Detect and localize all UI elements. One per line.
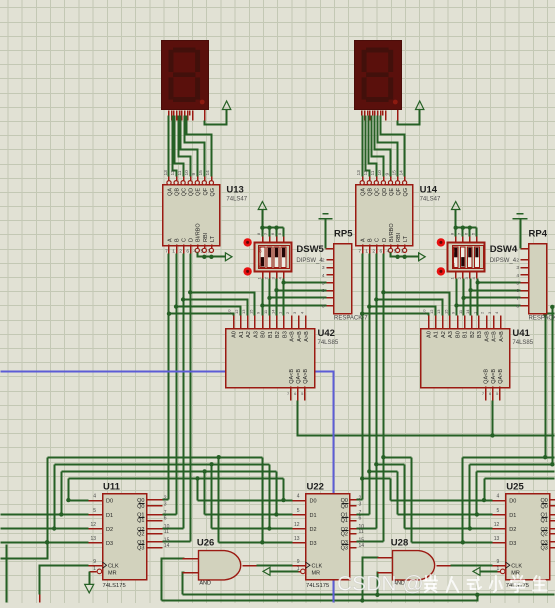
svg-text:7: 7 — [516, 296, 519, 302]
svg-text:1: 1 — [297, 566, 300, 572]
svg-text:D0: D0 — [310, 499, 317, 505]
svg-text:13: 13 — [294, 536, 300, 542]
svg-text:A=B: A=B — [492, 331, 498, 342]
svg-text:D3: D3 — [509, 541, 516, 547]
svg-text:U11: U11 — [103, 482, 121, 493]
svg-text:A: A — [167, 238, 173, 242]
svg-text:QB: QB — [175, 188, 181, 196]
svg-text:B2: B2 — [470, 331, 476, 338]
svg-text:Q3: Q3 — [540, 546, 547, 552]
svg-text:B2: B2 — [275, 331, 281, 338]
svg-text:3: 3 — [208, 249, 211, 255]
svg-text:14: 14 — [398, 170, 404, 176]
svg-text:U28: U28 — [391, 537, 408, 548]
svg-text:QC: QC — [182, 188, 188, 196]
svg-text:QE: QE — [196, 188, 202, 196]
svg-text:LT: LT — [210, 235, 216, 242]
svg-text:1: 1 — [93, 566, 96, 572]
svg-text:A2: A2 — [246, 331, 252, 338]
svg-text:A0: A0 — [426, 331, 432, 338]
svg-text:A0: A0 — [232, 331, 238, 338]
svg-text:5: 5 — [516, 281, 519, 287]
svg-text:6: 6 — [516, 288, 519, 294]
svg-text:A<B: A<B — [485, 331, 491, 342]
svg-text:11: 11 — [359, 529, 364, 535]
svg-text:14: 14 — [359, 543, 365, 549]
svg-text:A2: A2 — [441, 331, 447, 338]
svg-text:13: 13 — [163, 170, 169, 176]
svg-text:6: 6 — [380, 249, 383, 255]
svg-text:14: 14 — [164, 543, 170, 549]
svg-text:12: 12 — [90, 522, 96, 528]
svg-text:DSW4: DSW4 — [490, 244, 518, 255]
svg-text:Q0: Q0 — [137, 504, 144, 510]
svg-text:OFF: OFF — [452, 246, 456, 252]
svg-text:13: 13 — [241, 309, 246, 314]
svg-text:13: 13 — [436, 309, 441, 314]
svg-text:5: 5 — [322, 281, 325, 287]
svg-text:U25: U25 — [506, 482, 524, 493]
svg-text:6: 6 — [186, 249, 189, 255]
svg-text:RP5: RP5 — [334, 229, 353, 240]
svg-text:B1: B1 — [268, 331, 274, 338]
svg-text:D3: D3 — [310, 541, 317, 547]
svg-text:9: 9 — [497, 559, 500, 565]
svg-text:A3: A3 — [448, 331, 454, 338]
svg-text:4: 4 — [193, 249, 196, 255]
svg-text:5: 5 — [93, 508, 96, 514]
svg-text:5: 5 — [394, 249, 397, 255]
svg-text:CLK: CLK — [108, 564, 119, 570]
svg-text:B3: B3 — [477, 331, 483, 338]
svg-text:Q2: Q2 — [540, 532, 547, 538]
svg-text:2: 2 — [372, 249, 375, 255]
svg-text:11: 11 — [177, 170, 183, 175]
svg-text:D3: D3 — [106, 541, 113, 547]
svg-text:5: 5 — [297, 508, 300, 514]
svg-text:4: 4 — [322, 273, 325, 279]
svg-text:Q1: Q1 — [540, 518, 547, 524]
svg-text:5: 5 — [497, 508, 500, 514]
svg-text:13: 13 — [90, 536, 96, 542]
svg-text:14: 14 — [270, 309, 275, 314]
svg-text:U41: U41 — [512, 328, 530, 339]
svg-text:MR: MR — [108, 571, 117, 577]
svg-text:A>B: A>B — [304, 331, 310, 342]
svg-text:74LS47: 74LS47 — [226, 197, 247, 203]
svg-text:QD: QD — [189, 188, 195, 196]
svg-text:14: 14 — [205, 170, 211, 176]
svg-text:OFF: OFF — [259, 246, 263, 252]
svg-text:4: 4 — [93, 494, 96, 500]
svg-text:QG: QG — [210, 188, 216, 197]
svg-text:QD: QD — [382, 188, 388, 196]
svg-text:15: 15 — [391, 170, 397, 176]
svg-text:A=B: A=B — [297, 331, 303, 342]
svg-text:B3: B3 — [282, 331, 288, 338]
svg-text:12: 12 — [234, 309, 239, 314]
svg-text:B: B — [175, 238, 181, 242]
svg-text:D2: D2 — [310, 527, 317, 533]
svg-text:D2: D2 — [106, 527, 113, 533]
svg-text:12: 12 — [429, 309, 434, 314]
svg-text:12: 12 — [170, 170, 176, 176]
svg-text:Q1: Q1 — [137, 518, 144, 524]
svg-text:5: 5 — [201, 249, 204, 255]
svg-text:U13: U13 — [226, 185, 243, 196]
svg-text:B0: B0 — [455, 331, 461, 338]
svg-text:Q3: Q3 — [137, 546, 144, 552]
svg-text:74LS175: 74LS175 — [306, 583, 329, 589]
svg-text:QA<B: QA<B — [484, 369, 490, 384]
svg-text:U14: U14 — [420, 185, 438, 196]
svg-text:3: 3 — [322, 265, 325, 271]
svg-text:QG: QG — [403, 188, 409, 197]
svg-text:Q0: Q0 — [540, 504, 547, 510]
svg-text:1: 1 — [172, 249, 175, 255]
svg-text:2: 2 — [322, 258, 325, 264]
svg-text:3: 3 — [401, 249, 404, 255]
svg-text:QA: QA — [167, 188, 173, 196]
svg-text:QA>B: QA>B — [303, 369, 309, 384]
svg-text:RESPACK-7: RESPACK-7 — [529, 316, 555, 322]
svg-text:15: 15 — [249, 309, 254, 314]
svg-text:2: 2 — [359, 495, 362, 501]
svg-text:C: C — [375, 238, 381, 242]
svg-text:7: 7 — [358, 249, 361, 255]
svg-text:DIPSW_4: DIPSW_4 — [296, 258, 323, 264]
svg-text:7: 7 — [322, 296, 325, 302]
svg-text:12: 12 — [363, 170, 369, 176]
svg-text:QA=B: QA=B — [491, 369, 497, 384]
svg-text:QA>B: QA>B — [498, 369, 504, 384]
svg-text:Q3: Q3 — [341, 546, 348, 552]
svg-text:7: 7 — [165, 249, 168, 255]
svg-text:LT: LT — [403, 235, 409, 242]
svg-text:8: 8 — [322, 304, 325, 310]
svg-text:D1: D1 — [509, 513, 516, 519]
svg-text:2: 2 — [179, 249, 182, 255]
svg-text:CSDN @: CSDN @ — [337, 573, 424, 596]
svg-text:MR: MR — [312, 571, 321, 577]
svg-text:BI/RBO: BI/RBO — [196, 223, 202, 242]
svg-text:C: C — [182, 238, 188, 242]
svg-text:B1: B1 — [463, 331, 469, 338]
svg-text:AND: AND — [199, 581, 211, 587]
svg-text:A3: A3 — [253, 331, 259, 338]
svg-text:4: 4 — [297, 494, 300, 500]
svg-text:A1: A1 — [434, 331, 440, 338]
svg-text:13: 13 — [356, 170, 362, 176]
svg-text:1: 1 — [365, 249, 368, 255]
svg-text:6: 6 — [164, 516, 167, 522]
svg-text:3: 3 — [516, 265, 519, 271]
svg-text:U26: U26 — [197, 537, 214, 548]
svg-text:A>B: A>B — [499, 331, 505, 342]
svg-text:74LS85: 74LS85 — [318, 340, 339, 346]
svg-text:QF: QF — [396, 187, 402, 195]
svg-text:74LS175: 74LS175 — [103, 583, 126, 589]
svg-text:Q2: Q2 — [341, 532, 348, 538]
svg-text:QB: QB — [368, 188, 374, 196]
svg-text:QA: QA — [361, 188, 367, 196]
svg-text:74LS85: 74LS85 — [512, 340, 533, 346]
svg-text:QA<B: QA<B — [289, 369, 295, 384]
svg-text:Q2: Q2 — [137, 532, 144, 538]
svg-text:13: 13 — [494, 536, 500, 542]
svg-text:A<B: A<B — [290, 331, 296, 342]
svg-text:D: D — [189, 238, 195, 242]
svg-text:4: 4 — [516, 273, 519, 279]
svg-text:RP4: RP4 — [529, 229, 548, 240]
svg-text:9: 9 — [384, 173, 390, 176]
svg-text:11: 11 — [164, 529, 169, 535]
svg-text:CLK: CLK — [312, 564, 323, 570]
svg-text:6: 6 — [322, 288, 325, 294]
svg-text:12: 12 — [294, 522, 300, 528]
svg-text:2: 2 — [516, 258, 519, 264]
svg-text:10: 10 — [377, 170, 383, 176]
svg-text:14: 14 — [465, 309, 470, 314]
svg-text:RESPACK-7: RESPACK-7 — [334, 316, 368, 322]
svg-text:RBI: RBI — [396, 232, 402, 242]
svg-text:12: 12 — [494, 522, 500, 528]
svg-text:4: 4 — [497, 494, 500, 500]
svg-text:B: B — [368, 238, 374, 242]
svg-text:10: 10 — [422, 309, 427, 314]
svg-text:D: D — [382, 238, 388, 242]
svg-text:9: 9 — [297, 559, 300, 565]
svg-text:1: 1 — [497, 566, 500, 572]
svg-text:RBI: RBI — [203, 232, 209, 242]
svg-text:CLK: CLK — [511, 564, 522, 570]
svg-text:D1: D1 — [106, 513, 113, 519]
svg-text:15: 15 — [443, 309, 448, 314]
svg-text:9: 9 — [191, 173, 197, 176]
svg-text:10: 10 — [227, 309, 232, 314]
svg-text:QC: QC — [375, 188, 381, 196]
svg-text:B0: B0 — [261, 331, 267, 338]
svg-text:6: 6 — [359, 516, 362, 522]
svg-text:QF: QF — [203, 187, 209, 195]
svg-text:3: 3 — [164, 501, 167, 507]
svg-text:A: A — [361, 238, 367, 242]
svg-text:8: 8 — [516, 304, 519, 310]
svg-text:2: 2 — [164, 495, 167, 501]
svg-text:U22: U22 — [307, 482, 324, 493]
svg-text:A1: A1 — [239, 331, 245, 338]
svg-text:D2: D2 — [509, 527, 516, 533]
svg-text:Q0: Q0 — [341, 504, 348, 510]
svg-text:QE: QE — [389, 188, 395, 196]
svg-text:4: 4 — [387, 249, 390, 255]
svg-text:D0: D0 — [106, 499, 113, 505]
svg-text:1: 1 — [321, 247, 324, 253]
svg-text:DIPSW_4: DIPSW_4 — [490, 258, 517, 264]
svg-text:10: 10 — [184, 170, 190, 176]
svg-text:9: 9 — [93, 559, 96, 565]
svg-text:ON: ON — [452, 263, 456, 268]
svg-text:15: 15 — [198, 170, 204, 176]
svg-text:Q1: Q1 — [341, 518, 348, 524]
svg-text:3: 3 — [359, 501, 362, 507]
svg-text:BI/RBO: BI/RBO — [389, 223, 395, 242]
svg-text:D1: D1 — [310, 513, 317, 519]
svg-text:D0: D0 — [509, 499, 516, 505]
svg-text:U42: U42 — [318, 328, 335, 339]
svg-text:74LS47: 74LS47 — [420, 197, 441, 203]
svg-text:11: 11 — [370, 170, 376, 175]
svg-text:ON: ON — [259, 263, 263, 268]
svg-text:QA=B: QA=B — [296, 369, 302, 384]
svg-text:1: 1 — [515, 247, 518, 253]
